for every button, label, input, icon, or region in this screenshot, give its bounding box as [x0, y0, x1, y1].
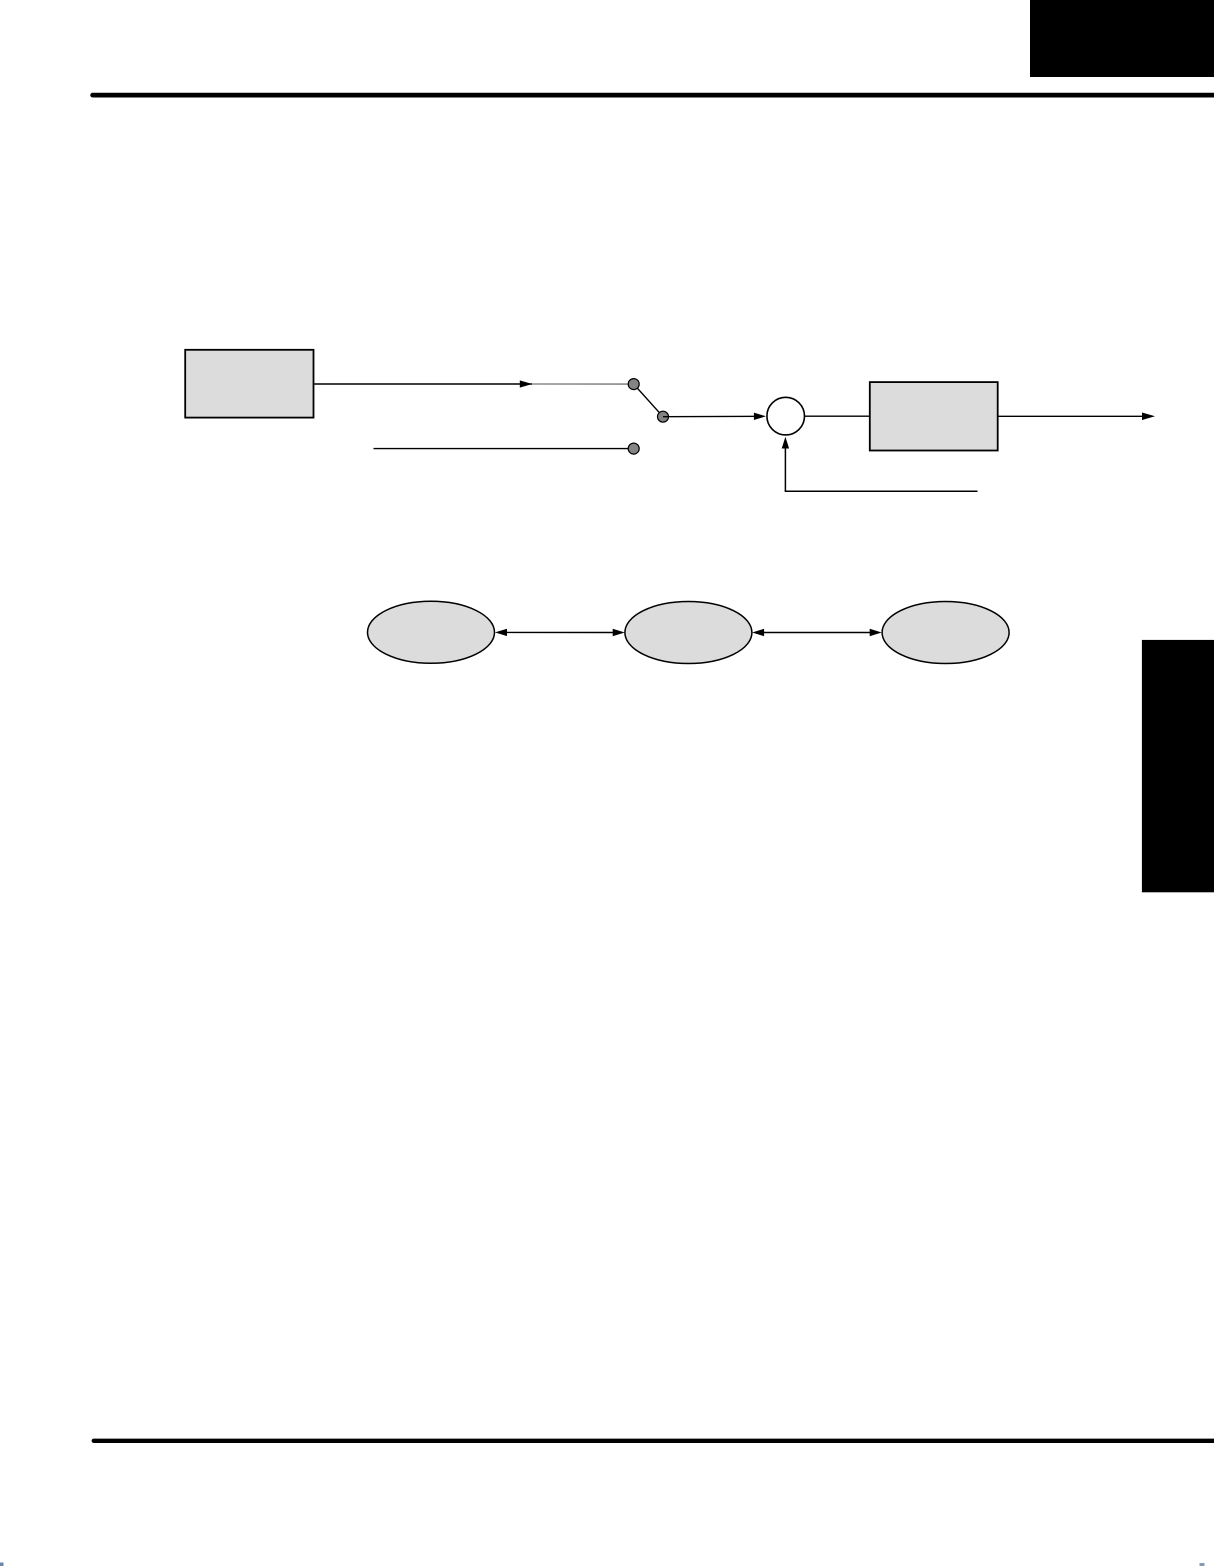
arrowhead into summing junction — [754, 413, 766, 420]
switch contact dot A (top) — [628, 379, 639, 390]
block B1 (source block) — [185, 350, 313, 418]
switch contact dot C (open, lower) — [628, 443, 639, 454]
wire summing junction to block B2 — [805, 415, 870, 417]
wire switch to summing junction (arrow into circle) — [663, 415, 764, 417]
switch contact dot B (common) — [658, 411, 669, 422]
wire B1 to switch pole A (with mid-line arrowhead) — [314, 383, 533, 385]
open contact wire (lower input) — [374, 448, 629, 450]
block B2 (process block) — [870, 382, 998, 450]
side chapter tab (black) — [1142, 640, 1214, 892]
summing junction circle — [767, 397, 805, 435]
feedback arrow into summing junction bottom — [784, 447, 786, 492]
state ellipse S1 — [368, 601, 495, 663]
scan speck bottom-left — [0, 1563, 4, 1566]
double arrow S2-S3 — [762, 632, 872, 634]
header chapter tab (black) — [1030, 0, 1214, 77]
state ellipse S2 — [625, 602, 752, 664]
output wire with arrowhead — [998, 415, 1144, 417]
scan speck bottom-right — [1200, 1563, 1205, 1566]
double arrow S1-S2 — [505, 631, 615, 633]
state ellipse S3 — [882, 602, 1009, 664]
arrowhead on B1 wire — [520, 380, 532, 387]
output arrowhead — [1142, 413, 1155, 421]
footer rule — [94, 1439, 1214, 1443]
header rule — [93, 93, 1214, 98]
switch blade (diagonal) — [634, 384, 663, 417]
feedback horizontal wire — [785, 490, 978, 492]
